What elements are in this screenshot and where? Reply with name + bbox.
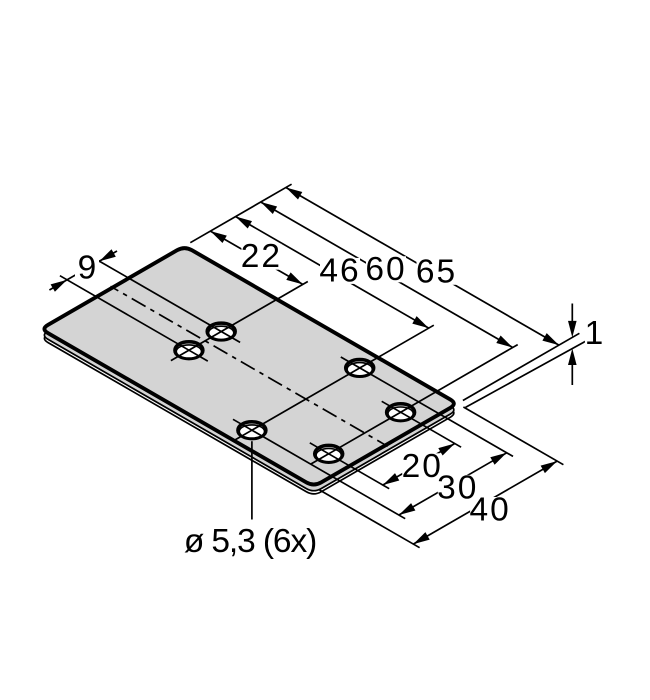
hole H6 centerline stub +v bbox=[311, 454, 329, 464]
dim 22: left arrow bbox=[210, 231, 226, 243]
plate side face / mid outline bbox=[44, 254, 453, 490]
svg-text:22: 22 bbox=[241, 238, 282, 275]
dim 40: dimension line bbox=[413, 461, 557, 544]
dim text 22: halo bbox=[241, 244, 281, 270]
dim 46: left arrow bbox=[236, 217, 253, 229]
dim text 60: halo bbox=[366, 256, 406, 282]
dim text 9: halo bbox=[75, 255, 99, 281]
svg-text:40: 40 bbox=[469, 492, 510, 529]
dim 40: extension of plate bottom edge beyond corner S bbox=[320, 490, 420, 548]
svg-text:60: 60 bbox=[365, 251, 406, 288]
dim 9: extension line through hole H2 along u bbox=[60, 276, 189, 351]
hole H4 centerline stub -u bbox=[382, 401, 401, 412]
plate bottom face outline bbox=[44, 258, 453, 494]
dim text 1 (thickness): halo bbox=[585, 320, 603, 346]
dim 30: dimension line bbox=[399, 453, 507, 515]
svg-text:46: 46 bbox=[319, 252, 360, 289]
hole H2 (ø5.3) bbox=[175, 342, 203, 359]
hole H4 (ø5.3) bbox=[387, 404, 415, 421]
longitudinal dash-dot centerline v=20mm bbox=[111, 286, 388, 446]
dim 40: extension of plate top edge beyond corner E bbox=[463, 407, 563, 465]
dim 30: lower arrow bbox=[399, 503, 416, 515]
hole H6 (ø5.3) bbox=[315, 445, 343, 462]
dim 20: extension line from hole H4 along u bbox=[401, 412, 462, 447]
dim 46: right arrow bbox=[412, 316, 428, 328]
dim 20: upper arrow (pointing up-right) bbox=[438, 444, 455, 456]
svg-text:1: 1 bbox=[585, 315, 604, 352]
hole H3 (ø5.3) bbox=[346, 360, 374, 377]
dim 9: extension line through hole H1 along u bbox=[92, 257, 221, 331]
upper thickness extension line (top face edge, also dim 65 landing) bbox=[463, 333, 580, 400]
dim 60: dimension line bbox=[261, 202, 513, 348]
hole H3 centerline stub -u bbox=[341, 357, 360, 368]
dim 30: extension line from hole H3 along u bbox=[360, 368, 513, 457]
dim 46: dimension line bbox=[236, 217, 429, 329]
dim 1: lower arrow shaft bbox=[571, 363, 573, 386]
svg-text:9: 9 bbox=[78, 250, 97, 287]
dim 1: upper arrow (pointing down) bbox=[568, 321, 577, 338]
dim 1: lower arrow (pointing up) bbox=[568, 349, 577, 366]
dim 46: extension line from holes H5/H3 along -v bbox=[252, 325, 434, 430]
dim 60: right arrow bbox=[496, 336, 512, 348]
dim 30: extension line from hole H5 along u bbox=[252, 430, 405, 519]
hole H1 (ø5.3) bbox=[207, 323, 235, 340]
hole H1 centerline stub +u bbox=[221, 332, 240, 343]
hole H2 centerline stub +u bbox=[189, 350, 208, 361]
dim 20: lower arrow (pointing down-left) bbox=[383, 473, 399, 485]
dim 65: dimension line bbox=[286, 188, 559, 346]
hole H5 centerline stub +v bbox=[234, 430, 252, 440]
plate top face bbox=[44, 248, 453, 484]
dim 1: upper arrow shaft bbox=[571, 304, 573, 324]
dim 20: extension line from hole H6 along u bbox=[329, 454, 390, 489]
dim text 20: halo bbox=[402, 453, 442, 479]
dim text 46: halo bbox=[320, 258, 360, 284]
dim 30: upper arrow bbox=[490, 453, 506, 465]
dim 22: extension line through holes H2 and H1 along -v bbox=[171, 282, 308, 361]
lower thickness extension line (bottom face edge) bbox=[466, 340, 588, 407]
svg-text:ø 5,3 (6x): ø 5,3 (6x) bbox=[184, 523, 316, 560]
dim 9: lower arrow (pointing up-right) bbox=[51, 280, 67, 292]
hole H6 centerline stub -u bbox=[310, 443, 329, 454]
dim text 65: halo bbox=[417, 259, 457, 285]
dim 60: left arrow bbox=[261, 202, 277, 214]
dim 22: dimension line bbox=[210, 231, 302, 284]
leader line from hole H5 down to label bbox=[251, 441, 253, 519]
dim 9: upper arrow (pointing down-left) bbox=[99, 249, 115, 261]
baseline extension of plate left edge bbox=[190, 184, 291, 243]
dim 20: dimension line bbox=[383, 444, 455, 486]
dim 40: upper arrow bbox=[541, 461, 558, 473]
dim 60: extension line from holes H6/H4 along -v bbox=[329, 345, 518, 454]
hole H5 (ø5.3) bbox=[238, 422, 266, 439]
svg-text:65: 65 bbox=[416, 253, 457, 290]
dim 9: dimension line with outside-arrow tails bbox=[49, 251, 117, 290]
dim 65: left arrow bbox=[286, 188, 302, 200]
dim 65: right arrow bbox=[542, 333, 559, 345]
dim text 40: halo bbox=[470, 497, 510, 523]
dim 40: lower arrow bbox=[413, 532, 429, 544]
dim text 30: halo bbox=[438, 475, 478, 501]
hole H5 centerline stub -u bbox=[233, 419, 252, 430]
dim 22: right arrow bbox=[286, 272, 303, 284]
